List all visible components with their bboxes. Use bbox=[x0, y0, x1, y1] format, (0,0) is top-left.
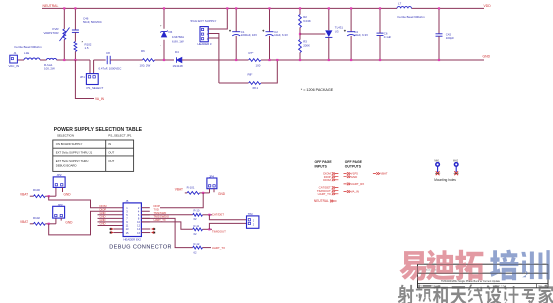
svg-text:PS_SELECT: PS_SELECT bbox=[87, 86, 104, 90]
svg-text:R2: R2 bbox=[303, 15, 307, 19]
svg-text:5Vdc EXT SUPPLY: 5Vdc EXT SUPPLY bbox=[191, 19, 217, 23]
svg-text:0.47uF, 1000VDC: 0.47uF, 1000VDC bbox=[99, 67, 122, 71]
svg-text:DIOM: DIOM bbox=[323, 178, 331, 182]
svg-text:C6: C6 bbox=[384, 31, 388, 35]
svg-text:HEADER 3: HEADER 3 bbox=[198, 42, 212, 46]
svg-text:OUT: OUT bbox=[108, 159, 114, 163]
svg-text:OFF PAGE: OFF PAGE bbox=[345, 160, 363, 164]
svg-text:IN: IN bbox=[108, 142, 111, 146]
svg-text:6.8V, 1W: 6.8V, 1W bbox=[172, 39, 184, 43]
svg-text:EXT 5Vdc SUPPLY THRU: EXT 5Vdc SUPPLY THRU bbox=[56, 159, 89, 163]
svg-text:OUTPUTS: OUTPUTS bbox=[345, 164, 362, 168]
svg-text:GND: GND bbox=[64, 193, 72, 197]
svg-text:J1: J1 bbox=[14, 51, 17, 55]
svg-text:L7: L7 bbox=[398, 2, 402, 6]
svg-text:VA_IN: VA_IN bbox=[351, 190, 359, 194]
svg-text:R3: R3 bbox=[303, 40, 307, 44]
svg-text:L1E: L1E bbox=[24, 51, 29, 55]
svg-text:-: - bbox=[160, 44, 161, 47]
svg-text:100pF: 100pF bbox=[446, 36, 454, 40]
svg-text:OFF PAGE: OFF PAGE bbox=[315, 160, 333, 164]
svg-text:GND: GND bbox=[65, 221, 73, 225]
svg-text:50nF, 500VDC: 50nF, 500VDC bbox=[83, 20, 102, 24]
svg-text:UART_TX: UART_TX bbox=[212, 246, 225, 250]
svg-text:1N4148: 1N4148 bbox=[173, 64, 184, 68]
svg-text:TIM: TIM bbox=[248, 212, 253, 216]
svg-text:68.1: 68.1 bbox=[253, 86, 259, 90]
svg-text:C42: C42 bbox=[446, 32, 452, 36]
svg-text:Ferrite Bead 600ohm: Ferrite Bead 600ohm bbox=[15, 45, 43, 49]
svg-text:VA_IN: VA_IN bbox=[95, 97, 105, 101]
svg-text:C8: C8 bbox=[106, 51, 110, 55]
svg-text:1.5: 1.5 bbox=[85, 46, 89, 50]
svg-text:PS_SELECT JP1: PS_SELECT JP1 bbox=[108, 134, 132, 138]
svg-text:D4: D4 bbox=[175, 50, 179, 54]
svg-text:GND: GND bbox=[483, 55, 491, 59]
svg-text:GND: GND bbox=[351, 175, 357, 179]
svg-text:6.04K: 6.04K bbox=[303, 19, 311, 23]
svg-text:U3: U3 bbox=[335, 30, 339, 34]
svg-text:TIM/DOUT: TIM/DOUT bbox=[212, 230, 226, 234]
svg-text:Mounting holes: Mounting holes bbox=[434, 178, 456, 182]
svg-text:R6: R6 bbox=[141, 49, 145, 53]
svg-text:1N4766A: 1N4766A bbox=[172, 35, 184, 39]
svg-text:UART_TX: UART_TX bbox=[318, 192, 331, 196]
svg-text:D6: D6 bbox=[169, 30, 173, 34]
svg-text:VBAT: VBAT bbox=[175, 187, 183, 191]
svg-text:MH2: MH2 bbox=[453, 159, 459, 162]
svg-text:CAT/DET: CAT/DET bbox=[212, 213, 224, 217]
svg-text:POWER SUPPLY SELECTION TABLE: POWER SUPPLY SELECTION TABLE bbox=[54, 127, 143, 133]
svg-text:INPUTS: INPUTS bbox=[315, 164, 328, 168]
svg-text:TL431: TL431 bbox=[335, 25, 344, 29]
svg-text:100, 2W: 100, 2W bbox=[44, 67, 55, 71]
svg-text:DEBUG CONNECTOR: DEBUG CONNECTOR bbox=[109, 244, 172, 250]
svg-text:MH1: MH1 bbox=[434, 159, 440, 162]
svg-text:NEUTRAL: NEUTRAL bbox=[314, 199, 329, 203]
svg-text:JP3: JP3 bbox=[58, 203, 63, 207]
svg-text:NEUTRAL: NEUTRAL bbox=[43, 4, 59, 8]
svg-text:Ferrite Bead 600ohm: Ferrite Bead 600ohm bbox=[398, 15, 426, 19]
svg-text:JP2: JP2 bbox=[57, 173, 62, 177]
svg-text:JP1: JP1 bbox=[80, 75, 85, 79]
svg-text:VARISTOR: VARISTOR bbox=[43, 31, 59, 35]
svg-text:* = 1206 PACKAGE: * = 1206 PACKAGE bbox=[301, 88, 334, 92]
svg-text:10uF, 6.3V: 10uF, 6.3V bbox=[354, 33, 368, 37]
svg-text:VAC_IN: VAC_IN bbox=[9, 64, 20, 68]
svg-text:VBAT: VBAT bbox=[20, 193, 28, 197]
svg-text:GND: GND bbox=[218, 192, 226, 196]
svg-text:100, 2W: 100, 2W bbox=[140, 63, 151, 67]
svg-text:DEBUG BOARD: DEBUG BOARD bbox=[56, 164, 77, 168]
svg-text:0.1uF: 0.1uF bbox=[384, 35, 392, 39]
svg-text:R102: R102 bbox=[33, 216, 40, 220]
svg-text:10uF, 6.3V: 10uF, 6.3V bbox=[274, 33, 288, 37]
svg-text:R100: R100 bbox=[33, 188, 40, 192]
svg-text:VBAT: VBAT bbox=[20, 220, 28, 224]
svg-text:200K: 200K bbox=[303, 43, 310, 47]
svg-text:JP4: JP4 bbox=[209, 174, 214, 178]
svg-text:HEADER 8X2: HEADER 8X2 bbox=[124, 237, 142, 241]
svg-text:UART_RX: UART_RX bbox=[351, 182, 365, 186]
svg-text:100: 100 bbox=[256, 63, 261, 67]
svg-text:EXT 5Vdc SUPPLY THRU J1: EXT 5Vdc SUPPLY THRU J1 bbox=[56, 150, 93, 154]
svg-text:SELECTION: SELECTION bbox=[57, 134, 74, 138]
svg-text:VBAT: VBAT bbox=[380, 172, 388, 176]
svg-text:OUT: OUT bbox=[108, 150, 114, 154]
svg-text:ON BOARD SUPPLY: ON BOARD SUPPLY bbox=[56, 142, 83, 146]
svg-text:R-101: R-101 bbox=[187, 186, 195, 190]
svg-text:VDD: VDD bbox=[484, 4, 492, 8]
svg-text:2200uF, 16V: 2200uF, 16V bbox=[241, 33, 257, 37]
